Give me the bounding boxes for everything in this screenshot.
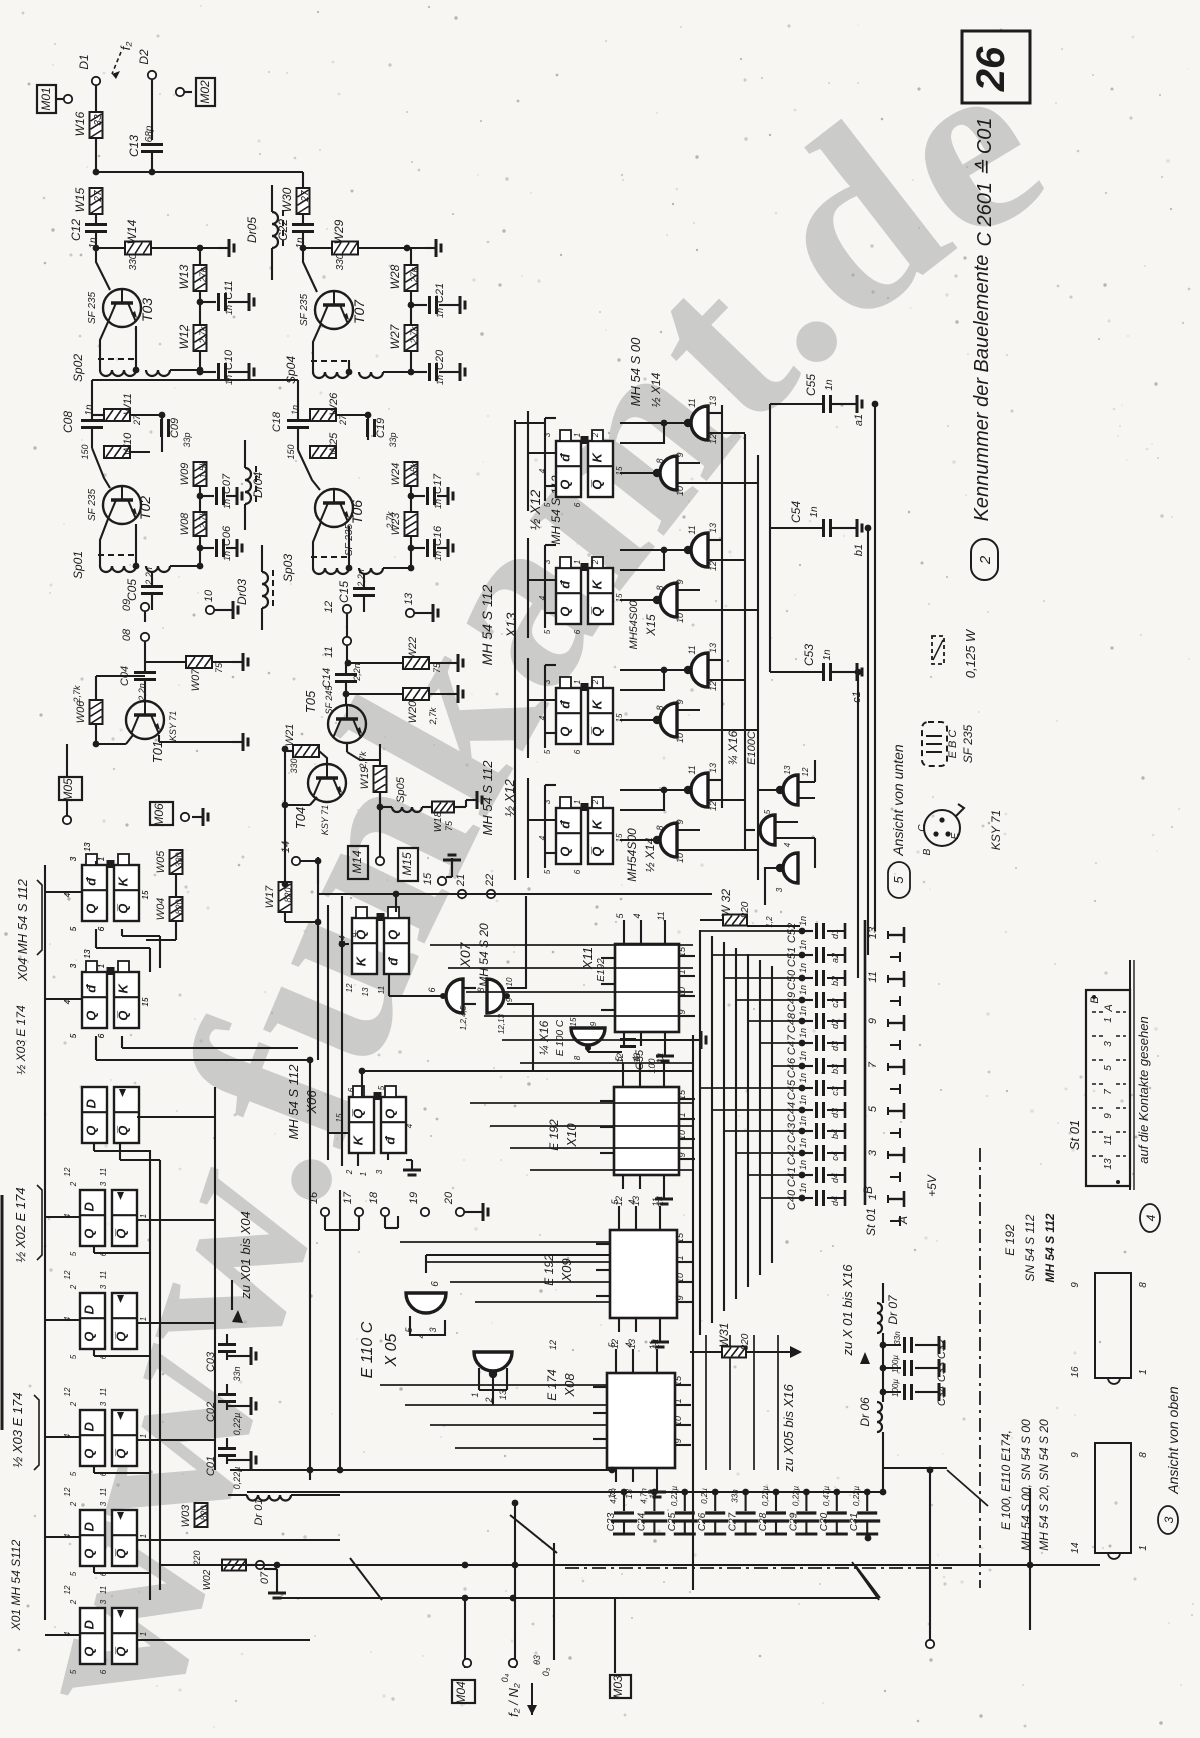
svg-text:T07: T07 (351, 299, 367, 324)
svg-text:3: 3 (375, 1169, 384, 1174)
svg-text:10: 10 (673, 1416, 683, 1426)
svg-text:13: 13 (83, 949, 92, 958)
svg-text:Q: Q (558, 607, 573, 617)
svg-text:D2: D2 (137, 49, 151, 65)
svg-text:3: 3 (99, 1501, 108, 1506)
svg-text:3: 3 (543, 679, 552, 684)
svg-text:9: 9 (675, 579, 685, 584)
svg-text:A: A (896, 1216, 910, 1225)
svg-text:MH 54 S 112: MH 54 S 112 (286, 1064, 301, 1140)
svg-text:C07: C07 (221, 473, 233, 494)
svg-text:+5V: +5V (925, 1174, 939, 1197)
svg-text:1,2,4,5: 1,2,4,5 (459, 1005, 468, 1030)
svg-text:St 01: St 01 (864, 1208, 878, 1236)
svg-text:0,47µ: 0,47µ (822, 1486, 831, 1507)
svg-text:E 192: E 192 (547, 1119, 561, 1151)
svg-text:15: 15 (677, 946, 687, 957)
svg-text:15: 15 (422, 872, 434, 885)
svg-text:8: 8 (573, 1055, 582, 1060)
svg-text:0,125 W: 0,125 W (963, 628, 978, 678)
svg-text:C 2601 ≙ C01: C 2601 ≙ C01 (974, 117, 996, 246)
svg-text:27k: 27k (409, 267, 419, 283)
svg-text:¼ X16: ¼ X16 (537, 1020, 551, 1055)
svg-text:8: 8 (655, 705, 665, 710)
svg-text:M14: M14 (350, 850, 364, 874)
svg-text:C32: C32 (936, 1339, 948, 1359)
svg-text:đ: đ (84, 984, 99, 993)
svg-text:5: 5 (69, 1471, 78, 1476)
svg-text:13: 13 (783, 765, 792, 774)
svg-text:3: 3 (543, 799, 552, 804)
svg-text:Dr03: Dr03 (235, 579, 249, 605)
svg-text:Dr05: Dr05 (245, 217, 259, 243)
svg-text:5: 5 (891, 876, 906, 884)
svg-text:6: 6 (347, 1087, 356, 1092)
svg-text:E 110 C: E 110 C (359, 1321, 376, 1378)
svg-text:9: 9 (867, 1018, 879, 1024)
svg-text:2,7k: 2,7k (428, 707, 438, 726)
svg-text:7: 7 (1103, 1089, 1114, 1095)
svg-text:C48: C48 (786, 1012, 798, 1033)
svg-text:A: A (1103, 1004, 1115, 1012)
svg-text:T04: T04 (293, 807, 308, 829)
svg-text:C52: C52 (786, 923, 798, 943)
svg-text:Q: Q (558, 480, 573, 490)
svg-text:6: 6 (99, 1669, 108, 1674)
svg-text:1n: 1n (798, 1160, 808, 1170)
svg-text:Q: Q (82, 1647, 97, 1657)
svg-text:MH 54 S 20, SN 54 S 20: MH 54 S 20, SN 54 S 20 (1037, 1419, 1051, 1551)
svg-text:5: 5 (543, 869, 552, 874)
svg-text:Q̅: Q̅ (590, 727, 605, 737)
svg-text:10: 10 (675, 853, 685, 863)
svg-text:Sp02: Sp02 (71, 354, 85, 382)
svg-text:4,7n: 4,7n (609, 1488, 618, 1504)
svg-text:KSY 71: KSY 71 (168, 711, 178, 741)
svg-text:2,7k: 2,7k (198, 511, 208, 530)
svg-text:6: 6 (97, 1033, 106, 1038)
svg-text:X01 MH 54 S112: X01 MH 54 S112 (9, 1539, 23, 1631)
svg-text:11: 11 (651, 1197, 661, 1206)
svg-text:đ: đ (383, 1136, 398, 1145)
svg-text:5: 5 (69, 1251, 78, 1256)
svg-text:Sp05: Sp05 (395, 776, 407, 803)
svg-text:150: 150 (80, 444, 90, 459)
svg-text:W20: W20 (407, 700, 419, 724)
svg-text:C09: C09 (169, 418, 181, 438)
svg-text:15: 15 (141, 890, 150, 899)
svg-text:33: 33 (93, 114, 104, 126)
svg-text:20: 20 (443, 1191, 455, 1205)
svg-text:X 05: X 05 (383, 1333, 400, 1367)
svg-text:Q: Q (84, 1011, 99, 1021)
svg-text:M05: M05 (61, 778, 75, 802)
svg-text:3: 3 (543, 432, 552, 437)
svg-text:M06: M06 (152, 803, 166, 827)
svg-text:Q: Q (82, 1549, 97, 1559)
svg-text:08: 08 (121, 628, 133, 641)
svg-text:đ: đ (558, 453, 573, 462)
svg-text:11: 11 (1103, 1135, 1114, 1145)
svg-text:11: 11 (687, 398, 697, 407)
svg-text:18: 18 (368, 1191, 380, 1204)
svg-text:M01: M01 (39, 87, 53, 110)
svg-text:4: 4 (405, 1123, 414, 1128)
svg-text:3: 3 (1162, 1516, 1176, 1523)
svg-text:W11: W11 (122, 393, 134, 415)
svg-text:13: 13 (403, 592, 415, 605)
svg-text:10: 10 (505, 977, 514, 986)
svg-text:½ X03 E 174: ½ X03 E 174 (14, 1005, 28, 1075)
svg-text:B: B (922, 848, 933, 855)
svg-text:Sp01: Sp01 (71, 551, 85, 579)
svg-text:11: 11 (867, 971, 879, 982)
svg-text:1: 1 (675, 1255, 685, 1260)
svg-text:K: K (354, 955, 369, 966)
svg-text:4: 4 (63, 1316, 72, 1321)
svg-text:1n: 1n (433, 499, 443, 509)
svg-text:17: 17 (342, 1191, 354, 1204)
svg-text:C50: C50 (786, 969, 798, 990)
svg-text:1: 1 (139, 1534, 148, 1538)
svg-text:9: 9 (1070, 1282, 1081, 1288)
svg-text:C02: C02 (205, 1402, 217, 1422)
svg-text:14: 14 (280, 841, 292, 853)
svg-text:3: 3 (69, 963, 78, 968)
svg-text:0,22µ: 0,22µ (232, 1413, 242, 1436)
svg-text:11: 11 (377, 986, 386, 994)
svg-text:22: 22 (484, 874, 496, 887)
svg-text:¾ X16: ¾ X16 (726, 730, 740, 765)
svg-text:W02: W02 (202, 1569, 213, 1590)
svg-text:1n: 1n (224, 305, 234, 315)
svg-text:10: 10 (675, 733, 685, 743)
svg-text:C53: C53 (802, 644, 816, 666)
svg-text:2: 2 (591, 679, 600, 685)
svg-text:4: 4 (632, 913, 642, 918)
svg-text:W16: W16 (73, 111, 87, 136)
svg-text:Q: Q (82, 1449, 97, 1459)
svg-text:MH54S00: MH54S00 (625, 828, 639, 882)
svg-text:T03: T03 (139, 298, 155, 322)
svg-text:1n: 1n (435, 308, 445, 318)
svg-text:1: 1 (673, 1398, 683, 1403)
svg-text:d3: d3 (830, 1108, 840, 1118)
svg-text:1n: 1n (798, 1073, 808, 1083)
svg-text:W14: W14 (125, 219, 139, 244)
svg-text:13: 13 (83, 842, 92, 851)
svg-text:a1: a1 (853, 414, 865, 426)
svg-text:1: 1 (1138, 1369, 1149, 1375)
svg-text:12: 12 (323, 601, 335, 613)
svg-text:T06: T06 (349, 500, 365, 524)
svg-text:15: 15 (615, 713, 624, 722)
svg-text:5: 5 (1103, 1065, 1114, 1071)
svg-text:Q̅: Q̅ (114, 1449, 129, 1459)
svg-text:13: 13 (708, 523, 718, 533)
svg-text:5: 5 (69, 1669, 78, 1674)
svg-text:1n: 1n (809, 506, 820, 518)
svg-text:1n: 1n (798, 1183, 808, 1193)
svg-text:10: 10 (203, 589, 215, 602)
svg-text:½ X03 E 174: ½ X03 E 174 (10, 1392, 25, 1467)
svg-text:33p: 33p (388, 432, 398, 447)
svg-text:W07: W07 (190, 668, 202, 692)
svg-text:X04 MH 54 S 112: X04 MH 54 S 112 (15, 878, 30, 981)
svg-text:Q: Q (386, 930, 401, 940)
svg-text:W04: W04 (155, 898, 167, 921)
svg-text:15: 15 (615, 833, 624, 842)
svg-text:1: 1 (97, 964, 106, 968)
svg-text:M02: M02 (198, 80, 212, 104)
svg-text:4: 4 (63, 1213, 72, 1218)
svg-text:SN 54 S 112: SN 54 S 112 (1023, 1214, 1037, 1281)
svg-text:100µ: 100µ (891, 1355, 900, 1373)
svg-text:D: D (82, 1304, 97, 1314)
svg-text:1: 1 (1103, 1017, 1114, 1023)
svg-text:11: 11 (99, 1488, 108, 1496)
svg-text:9: 9 (505, 997, 514, 1002)
svg-text:6: 6 (573, 502, 582, 507)
svg-text:K: K (351, 1134, 366, 1145)
svg-text:W03: W03 (180, 1504, 192, 1528)
svg-text:SF 245: SF 245 (324, 685, 334, 715)
svg-text:d2: d2 (830, 1019, 840, 1029)
svg-text:Q: Q (84, 904, 99, 914)
svg-text:C18: C18 (271, 411, 283, 432)
svg-text:27: 27 (93, 190, 104, 203)
svg-text:1n: 1n (798, 1006, 808, 1016)
svg-text:1n: 1n (798, 940, 808, 950)
svg-text:C55: C55 (804, 374, 818, 396)
svg-text:3: 3 (867, 1149, 879, 1156)
svg-text:W31: W31 (717, 1323, 731, 1348)
svg-text:27k: 27k (198, 267, 208, 283)
svg-text:W30: W30 (280, 187, 294, 212)
svg-text:W09: W09 (179, 463, 191, 486)
svg-text:11: 11 (687, 525, 697, 534)
svg-text:f₂ / N₂: f₂ / N₂ (506, 1683, 521, 1717)
svg-text:15: 15 (615, 466, 624, 475)
svg-text:1n: 1n (435, 375, 445, 385)
svg-text:1: 1 (139, 1214, 148, 1218)
svg-text:W19: W19 (359, 767, 371, 790)
svg-text:10: 10 (675, 486, 685, 496)
svg-text:W22: W22 (407, 637, 419, 660)
svg-text:3: 3 (99, 1599, 108, 1604)
svg-text:5: 5 (69, 926, 78, 931)
svg-text:4: 4 (63, 1433, 72, 1438)
svg-text:33n: 33n (731, 1489, 740, 1503)
svg-text:13: 13 (708, 396, 718, 406)
svg-text:4,7n: 4,7n (639, 1488, 648, 1504)
svg-text:2,7k: 2,7k (72, 685, 82, 704)
svg-text:W17: W17 (264, 885, 276, 909)
svg-text:1,5k: 1,5k (198, 461, 208, 479)
svg-text:Q̅: Q̅ (116, 1011, 131, 1021)
svg-text:3: 3 (1103, 1041, 1114, 1047)
svg-text:4: 4 (63, 999, 72, 1004)
svg-text:Q: Q (383, 1109, 398, 1119)
svg-text:15k: 15k (409, 462, 419, 477)
svg-text:Ansicht von unten: Ansicht von unten (890, 744, 906, 857)
svg-text:W25: W25 (328, 432, 340, 456)
svg-text:Q̅: Q̅ (114, 1332, 129, 1342)
svg-text:16: 16 (1070, 1366, 1081, 1378)
svg-text:6: 6 (99, 1354, 108, 1359)
svg-text:5: 5 (377, 1085, 386, 1090)
svg-text:auf die Kontakte gesehen: auf die Kontakte gesehen (1136, 1016, 1151, 1163)
svg-text:C12: C12 (69, 219, 83, 241)
svg-text:150: 150 (286, 444, 296, 459)
svg-text:T05: T05 (303, 690, 318, 713)
svg-text:5: 5 (69, 1033, 78, 1038)
svg-text:27: 27 (300, 190, 311, 203)
svg-text:9: 9 (351, 932, 360, 937)
svg-text:1: 1 (139, 1434, 148, 1438)
svg-text:C42: C42 (786, 1145, 798, 1165)
svg-text:4: 4 (624, 1342, 634, 1347)
svg-text:E 192: E 192 (1003, 1224, 1017, 1256)
svg-text:7: 7 (867, 1061, 879, 1068)
svg-text:9: 9 (677, 1152, 687, 1157)
svg-text:12: 12 (801, 767, 810, 776)
svg-text:330: 330 (174, 852, 184, 867)
svg-text:12: 12 (345, 983, 354, 992)
svg-text:100µ: 100µ (891, 1379, 900, 1397)
svg-text:19: 19 (408, 1192, 420, 1204)
svg-text:2: 2 (345, 1169, 354, 1175)
svg-text:B: B (861, 1186, 875, 1194)
svg-text:W 32: W 32 (719, 889, 733, 917)
svg-text:MH 54 S 112: MH 54 S 112 (1043, 1213, 1057, 1282)
svg-text:C44: C44 (786, 1102, 798, 1122)
svg-text:C54: C54 (789, 501, 803, 523)
svg-text:15: 15 (673, 1375, 683, 1386)
svg-text:C08: C08 (61, 411, 75, 433)
svg-text:C19: C19 (375, 418, 387, 438)
svg-text:Kennummer der Bauelemente: Kennummer der Bauelemente (971, 255, 993, 522)
svg-text:12: 12 (708, 801, 718, 811)
svg-text:9: 9 (675, 819, 685, 824)
svg-text:15: 15 (141, 997, 150, 1006)
svg-text:M15: M15 (400, 852, 414, 876)
svg-text:KSY 71: KSY 71 (320, 805, 330, 835)
svg-text:zu X05 bis X16: zu X05 bis X16 (781, 1384, 796, 1473)
svg-text:15: 15 (335, 1113, 344, 1122)
svg-text:0,2µ: 0,2µ (700, 1488, 709, 1504)
svg-text:11: 11 (99, 1388, 108, 1396)
svg-text:Dr04: Dr04 (251, 472, 265, 498)
svg-text:C05: C05 (125, 579, 139, 601)
svg-text:2,7k: 2,7k (198, 326, 208, 345)
svg-text:1: 1 (1138, 1545, 1149, 1551)
svg-text:5: 5 (69, 1354, 78, 1359)
svg-text:MH 54 S 00: MH 54 S 00 (628, 337, 643, 406)
svg-text:d4: d4 (830, 1173, 840, 1183)
svg-text:1n: 1n (433, 551, 443, 561)
svg-text:2,7k: 2,7k (409, 326, 419, 345)
svg-text:Ansicht von oben: Ansicht von oben (1165, 1386, 1181, 1495)
svg-text:1n: 1n (824, 379, 835, 391)
svg-text:1: 1 (573, 680, 582, 684)
svg-text:5: 5 (69, 1571, 78, 1576)
svg-text:6: 6 (573, 869, 582, 874)
svg-text:820: 820 (199, 1505, 209, 1520)
svg-text:đ: đ (558, 820, 573, 829)
svg-text:1n: 1n (222, 551, 232, 561)
svg-text:D: D (82, 1619, 97, 1629)
svg-text:15: 15 (675, 1232, 685, 1243)
svg-text:Q̅: Q̅ (351, 1109, 366, 1119)
svg-text:1: 1 (139, 1317, 148, 1321)
svg-text:6: 6 (99, 1571, 108, 1576)
svg-text:9: 9 (675, 1295, 685, 1300)
svg-text:10: 10 (675, 1273, 685, 1283)
svg-text:½ X12: ½ X12 (527, 490, 543, 531)
svg-text:a2: a2 (830, 953, 840, 963)
svg-text:2: 2 (591, 559, 600, 565)
svg-text:12: 12 (708, 561, 718, 571)
svg-text:11: 11 (656, 911, 666, 920)
svg-text:4: 4 (538, 468, 547, 473)
svg-text:330: 330 (335, 253, 346, 270)
svg-text:C25: C25 (667, 1512, 678, 1531)
svg-text:E B C: E B C (947, 730, 959, 759)
svg-text:1n: 1n (798, 985, 808, 995)
svg-text:C13: C13 (127, 135, 141, 157)
svg-text:E 100, E110 E174,: E 100, E110 E174, (999, 1430, 1013, 1530)
svg-text:d4: d4 (830, 1196, 840, 1206)
svg-text:21: 21 (455, 874, 467, 887)
svg-text:75: 75 (214, 662, 224, 673)
svg-text:d3: d3 (830, 1041, 840, 1051)
svg-text:W08: W08 (179, 512, 191, 536)
svg-text:W26: W26 (328, 392, 340, 416)
svg-text:1n: 1n (798, 1095, 808, 1105)
svg-text:8: 8 (1138, 1282, 1149, 1288)
svg-text:W18: W18 (433, 811, 444, 832)
svg-text:W28: W28 (388, 264, 402, 289)
svg-text:E 100 C: E 100 C (555, 1019, 566, 1056)
svg-text:2: 2 (69, 1599, 78, 1605)
svg-text:0₃: 0₃ (541, 1667, 551, 1676)
svg-text:4: 4 (538, 715, 547, 720)
svg-text:12: 12 (63, 1387, 72, 1396)
svg-text:2: 2 (591, 432, 600, 438)
svg-text:W29: W29 (332, 219, 346, 244)
svg-text:13: 13 (867, 926, 879, 939)
svg-text:330: 330 (128, 253, 139, 270)
svg-text:C29: C29 (788, 1512, 799, 1531)
svg-text:C27: C27 (728, 1512, 739, 1531)
svg-text:C20: C20 (434, 349, 446, 370)
svg-text:13: 13 (708, 763, 718, 773)
svg-text:Q: Q (558, 727, 573, 737)
svg-text:Sp03: Sp03 (281, 554, 295, 582)
svg-text:9: 9 (675, 699, 685, 704)
svg-text:12: 12 (708, 434, 718, 444)
svg-text:1: 1 (359, 1172, 368, 1176)
svg-text:5: 5 (543, 749, 552, 754)
svg-text:11: 11 (648, 1340, 658, 1349)
svg-text:4: 4 (63, 892, 72, 897)
svg-text:X06: X06 (304, 1090, 319, 1115)
svg-text:Q: Q (84, 1126, 99, 1136)
svg-text:1: 1 (139, 1632, 148, 1636)
svg-text:11: 11 (99, 1271, 108, 1279)
svg-text:1n: 1n (798, 1051, 808, 1061)
